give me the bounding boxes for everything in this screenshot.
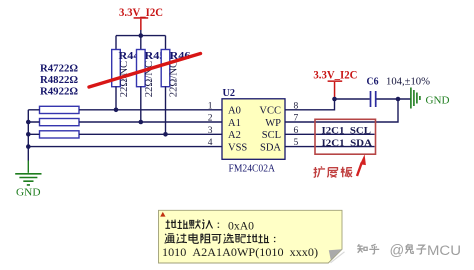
- pin 5 number: [294, 138, 299, 148]
- svg-text:SCL: SCL: [262, 130, 281, 141]
- wire: R44 leg to net A0: [115, 87, 117, 110]
- wire: left ground bus: [27, 110, 29, 161]
- wire: R45 leg to net A1: [140, 87, 142, 123]
- svg-text:A1: A1: [228, 118, 241, 129]
- resistor R47: [40, 106, 80, 113]
- svg-text:R4822Ω: R4822Ω: [40, 75, 78, 86]
- svg-text:FM24C02A: FM24C02A: [229, 163, 276, 175]
- svg-text:104,±10%: 104,±10%: [386, 77, 430, 88]
- wire: net A1 (pin2): [28, 121, 222, 123]
- svg-text:A2: A2: [228, 130, 241, 141]
- pin name WP: [265, 118, 281, 129]
- pin name VSS: [228, 142, 247, 153]
- wire: rail drop to R44: [115, 36, 117, 50]
- label R48 22Ω: [40, 75, 78, 86]
- node: R44 on net A0: [114, 108, 119, 113]
- wire: SCL pin6 net: [285, 133, 375, 135]
- svg-text:GND: GND: [16, 187, 41, 199]
- node: power junction: [139, 33, 144, 38]
- net label I2C1_SCL: [322, 126, 372, 137]
- node: R46 on net A2: [163, 132, 168, 137]
- svg-text:I2C1 SCL: I2C1 SCL: [322, 126, 372, 137]
- node: bus net A2: [26, 132, 31, 137]
- svg-text:4: 4: [208, 138, 213, 148]
- label 扩展板 (expansion board): [314, 166, 352, 177]
- node: bus net VSS: [26, 144, 31, 149]
- note text line 3: [162, 247, 318, 259]
- resistor R45: [137, 50, 166, 98]
- watermark 知乎@兔子MCU: [357, 243, 461, 259]
- svg-text:R4722Ω: R4722Ω: [40, 64, 78, 75]
- pin name A2: [228, 130, 241, 141]
- node: bus net A1: [26, 120, 31, 125]
- svg-text:I2C1 SDA: I2C1 SDA: [322, 138, 373, 149]
- svg-text:C6: C6: [367, 76, 379, 88]
- svg-text:0xA0: 0xA0: [228, 220, 254, 232]
- power symbol 3.3V_I2C (right): [313, 70, 357, 98]
- label 104,±10%: [386, 77, 430, 88]
- wire: net A0 (pin1): [28, 109, 222, 111]
- IC U2 body: [222, 87, 285, 175]
- svg-text:WP: WP: [265, 118, 281, 129]
- svg-text:2: 2: [208, 114, 213, 124]
- svg-text:22Ω/NC: 22Ω/NC: [168, 61, 180, 98]
- no-populate strike line: [89, 54, 201, 88]
- pin 3 number: [208, 126, 213, 136]
- svg-text:VSS: VSS: [228, 142, 247, 153]
- svg-text:3.3V_I2C: 3.3V_I2C: [313, 70, 357, 82]
- wire: net VSS (pin4): [28, 146, 222, 148]
- wire: rail drop to R46: [165, 36, 167, 50]
- label R49 22Ω: [40, 86, 78, 97]
- svg-text:U2: U2: [223, 87, 236, 99]
- resistor R44: [112, 50, 141, 98]
- wire: top rail: [116, 35, 166, 37]
- svg-text:1: 1: [208, 101, 213, 111]
- wire: node to C6: [335, 98, 370, 100]
- pin 7 number: [294, 114, 299, 124]
- resistor R46: [161, 50, 190, 98]
- pin name A1: [228, 118, 241, 129]
- pin 1 number: [208, 101, 213, 111]
- wire: rail drop to R45: [140, 36, 142, 50]
- pin 6 number: [294, 126, 299, 136]
- pin name SDA: [260, 142, 281, 153]
- node: R45 on net A1: [139, 120, 144, 125]
- ground (right): [411, 88, 450, 109]
- wire: net A2 (pin3): [28, 133, 222, 135]
- svg-text:GND: GND: [426, 96, 450, 107]
- wire: C6 to gnd node: [377, 98, 411, 100]
- svg-text:MCU: MCU: [427, 243, 461, 258]
- ground (left): [15, 161, 41, 199]
- resistor R48: [40, 119, 80, 126]
- note text line 2: 通过电阻可选配地址:: [165, 233, 275, 243]
- pin 2 number: [208, 114, 213, 124]
- svg-text:3: 3: [208, 126, 213, 136]
- pin 4 number: [208, 138, 213, 148]
- highlight box (expansion signals): [315, 119, 376, 154]
- note text line 1: 地址默认: 0xA0: [165, 220, 254, 233]
- power symbol 3.3V_I2C (top): [119, 7, 163, 30]
- capacitor C6: [367, 76, 379, 107]
- svg-text:VCC: VCC: [259, 106, 281, 117]
- wire: junction down to WP: [285, 99, 398, 122]
- resistor R49: [40, 131, 80, 138]
- note: address configuration: [159, 210, 345, 263]
- wire: R46 leg to net A2: [165, 87, 167, 135]
- svg-text:R4922Ω: R4922Ω: [40, 86, 78, 97]
- wire: power stub to rail: [140, 30, 142, 36]
- pin name A0: [228, 106, 241, 117]
- node: C6/WP junction: [396, 97, 401, 102]
- svg-text:@: @: [390, 243, 405, 259]
- wire: SDA pin5 net: [285, 146, 375, 148]
- pin name VCC: [259, 106, 281, 117]
- wire: VCC pin8 net: [285, 99, 335, 110]
- node: VCC power junction: [332, 97, 337, 102]
- svg-text:A0: A0: [228, 106, 241, 117]
- svg-text:1010 A2A1A0WP(1010 xxx0): 1010 A2A1A0WP(1010 xxx0): [162, 247, 318, 259]
- pin 8 number: [294, 101, 299, 111]
- callout arrow: [357, 154, 366, 176]
- label R47 22Ω: [40, 64, 78, 75]
- svg-text:SDA: SDA: [260, 142, 281, 153]
- net label I2C1_SDA: [322, 138, 373, 149]
- pin name SCL: [262, 130, 281, 141]
